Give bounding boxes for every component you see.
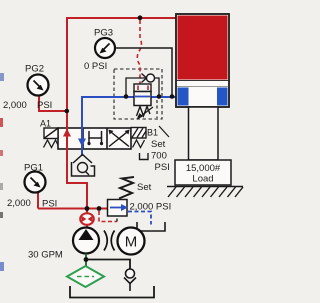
wire: black gauge line PG3 to rod line xyxy=(115,48,172,97)
junction node bypass left xyxy=(124,94,129,99)
motor M1 xyxy=(118,228,145,255)
flow meter (red) xyxy=(80,213,94,225)
svg-text:2,000: 2,000 xyxy=(3,100,27,111)
cylinder CYL1 xyxy=(176,14,229,107)
counterbalance valve CB1 body xyxy=(134,92,151,106)
wire: suction line xyxy=(85,254,87,267)
wire: red stub to pump xyxy=(86,225,88,229)
svg-text:Set: Set xyxy=(137,182,152,193)
tank bracket relief drain xyxy=(137,222,165,231)
svg-text:PSI: PSI xyxy=(155,162,170,173)
svg-text:PSI: PSI xyxy=(37,100,52,111)
svg-text:PG3: PG3 xyxy=(94,28,113,39)
relief valve RV1 xyxy=(108,200,128,217)
B1 leader xyxy=(159,126,169,137)
wire: PG2 stub xyxy=(39,96,67,111)
valve right position crossed arrows xyxy=(109,130,130,147)
edge speck 6 xyxy=(0,262,4,271)
svg-text:PG2: PG2 xyxy=(25,64,44,75)
solenoid left xyxy=(44,128,58,139)
relief spring xyxy=(119,177,134,199)
svg-text:Load: Load xyxy=(192,174,213,185)
solenoid right (hatched) xyxy=(131,128,146,139)
wire: dashed drain in enclosure xyxy=(156,100,158,118)
pump P1 xyxy=(73,228,99,254)
red pilot dashes in cap xyxy=(137,86,139,91)
svg-text:PSI: PSI xyxy=(42,199,57,210)
svg-text:2,000: 2,000 xyxy=(7,198,31,209)
svg-text:0 PSI: 0 PSI xyxy=(84,61,107,72)
gauge PG1 xyxy=(24,163,46,193)
piston rod xyxy=(189,107,219,160)
wire: check valve bypass loop xyxy=(126,78,159,97)
main tank bracket xyxy=(70,286,154,298)
edge speck 1 xyxy=(0,73,4,81)
wire: blue dashed drain from relief to tank xyxy=(128,212,151,225)
wire: red dashed relief pilot xyxy=(99,211,117,222)
wire: PG1 stub xyxy=(37,193,39,209)
wire: branch to check valve xyxy=(86,260,130,270)
ground line xyxy=(167,186,243,188)
CB adjust arrow xyxy=(139,107,153,118)
check valve CV2 xyxy=(126,269,135,278)
flow arrow in valve (blue down) xyxy=(78,139,86,147)
wire: red gauge bus PG1 to relief valve xyxy=(38,208,108,210)
mini tank bracket right xyxy=(140,153,149,160)
edge speck 4 xyxy=(0,183,3,190)
counterbalance valve pilot cap xyxy=(134,84,151,92)
filter F1 (green diamond) xyxy=(67,266,104,287)
junction node relief pilot xyxy=(97,206,102,211)
valve center position H symbol xyxy=(89,132,102,145)
coupling xyxy=(104,231,107,251)
edge speck 3 xyxy=(0,150,3,156)
spring right xyxy=(133,140,145,148)
blue line through CB valve xyxy=(135,96,150,98)
gauge PG2 xyxy=(25,64,49,96)
edge speck 5 xyxy=(0,212,3,218)
junction node top xyxy=(138,15,143,20)
spring left xyxy=(44,140,59,148)
svg-text:B1: B1 xyxy=(147,128,158,138)
junction node pump xyxy=(85,206,90,211)
enclosure dashed box (counterbalance valve assembly) xyxy=(114,69,162,119)
wire: red dashed pilot line from cap line xyxy=(137,20,141,86)
directional valve U1 body xyxy=(58,128,131,149)
load box xyxy=(175,160,231,185)
junction node PG3 line xyxy=(170,94,175,99)
tank symbol under valve T port xyxy=(72,155,95,177)
edge speck 2 xyxy=(0,118,3,127)
H symbol end dots xyxy=(87,142,90,145)
junction node bypass right xyxy=(157,94,162,99)
wire: black dashed relief drain stub xyxy=(116,216,118,222)
svg-text:30 GPM: 30 GPM xyxy=(28,250,63,261)
ground hatching xyxy=(168,187,243,197)
svg-text:700: 700 xyxy=(151,151,167,162)
svg-text:A1: A1 xyxy=(40,119,51,129)
wire: red pressure line pump to valve to cylinder cap xyxy=(67,18,176,213)
CB spring xyxy=(137,107,151,117)
svg-text:15,000#: 15,000# xyxy=(186,163,221,174)
check valve CV1 xyxy=(142,74,155,83)
junction node PG2 xyxy=(65,109,70,114)
junction node suction xyxy=(84,257,89,262)
wire: blue rod-end line valve to cylinder xyxy=(82,97,176,156)
flow arrow in valve (red up) xyxy=(63,129,71,137)
svg-text:Set: Set xyxy=(151,139,166,150)
svg-text:PG1: PG1 xyxy=(24,163,43,174)
gauge PG3 xyxy=(94,28,115,59)
svg-text:M: M xyxy=(125,234,138,251)
